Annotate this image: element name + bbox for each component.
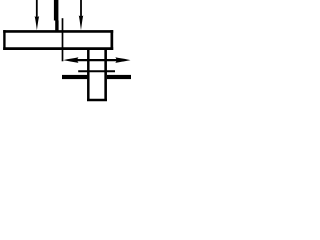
force arrow F1 head xyxy=(35,16,40,30)
background xyxy=(0,0,134,103)
column right vertical xyxy=(104,48,107,101)
table rectangle right edge xyxy=(110,30,113,50)
travel arrow right head xyxy=(115,57,130,63)
column bottom bar xyxy=(87,99,107,102)
right clamp plate xyxy=(107,75,131,79)
table rectangle top edge xyxy=(3,30,113,33)
force arrow F1 shaft xyxy=(36,0,38,18)
left clamp plate xyxy=(62,75,88,79)
travel arrow left head xyxy=(63,57,78,63)
force arrow F2 head xyxy=(79,15,84,30)
table rectangle left edge xyxy=(3,30,5,50)
punch bar thick upper part xyxy=(54,0,59,21)
force arrow F2 shaft xyxy=(80,0,82,17)
column left vertical xyxy=(87,48,90,101)
vertical line through table xyxy=(62,18,64,61)
slide line under table xyxy=(78,70,115,72)
punch bar narrower lower part xyxy=(55,21,58,31)
travel arrow line xyxy=(70,59,124,61)
table rectangle bottom edge xyxy=(3,47,113,50)
